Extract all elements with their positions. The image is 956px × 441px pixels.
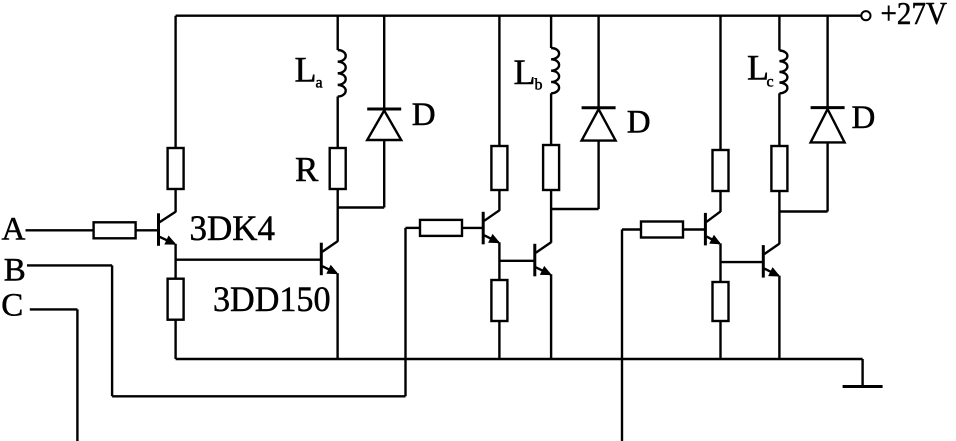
svg-text:L: L	[295, 50, 317, 90]
svg-text:A: A	[2, 212, 26, 248]
svg-text:D: D	[852, 100, 876, 136]
svg-text:a: a	[316, 75, 323, 92]
svg-text:c: c	[767, 73, 774, 90]
svg-text:b: b	[535, 77, 543, 94]
svg-text:L: L	[514, 52, 536, 92]
svg-text:C: C	[1, 288, 23, 324]
svg-text:B: B	[4, 253, 26, 289]
svg-text:R: R	[295, 150, 319, 189]
svg-text:D: D	[412, 97, 436, 133]
svg-text:3DK4: 3DK4	[190, 208, 276, 248]
svg-text:+27V: +27V	[881, 0, 948, 31]
svg-text:D: D	[627, 105, 651, 141]
svg-text:3DD150: 3DD150	[213, 279, 331, 319]
